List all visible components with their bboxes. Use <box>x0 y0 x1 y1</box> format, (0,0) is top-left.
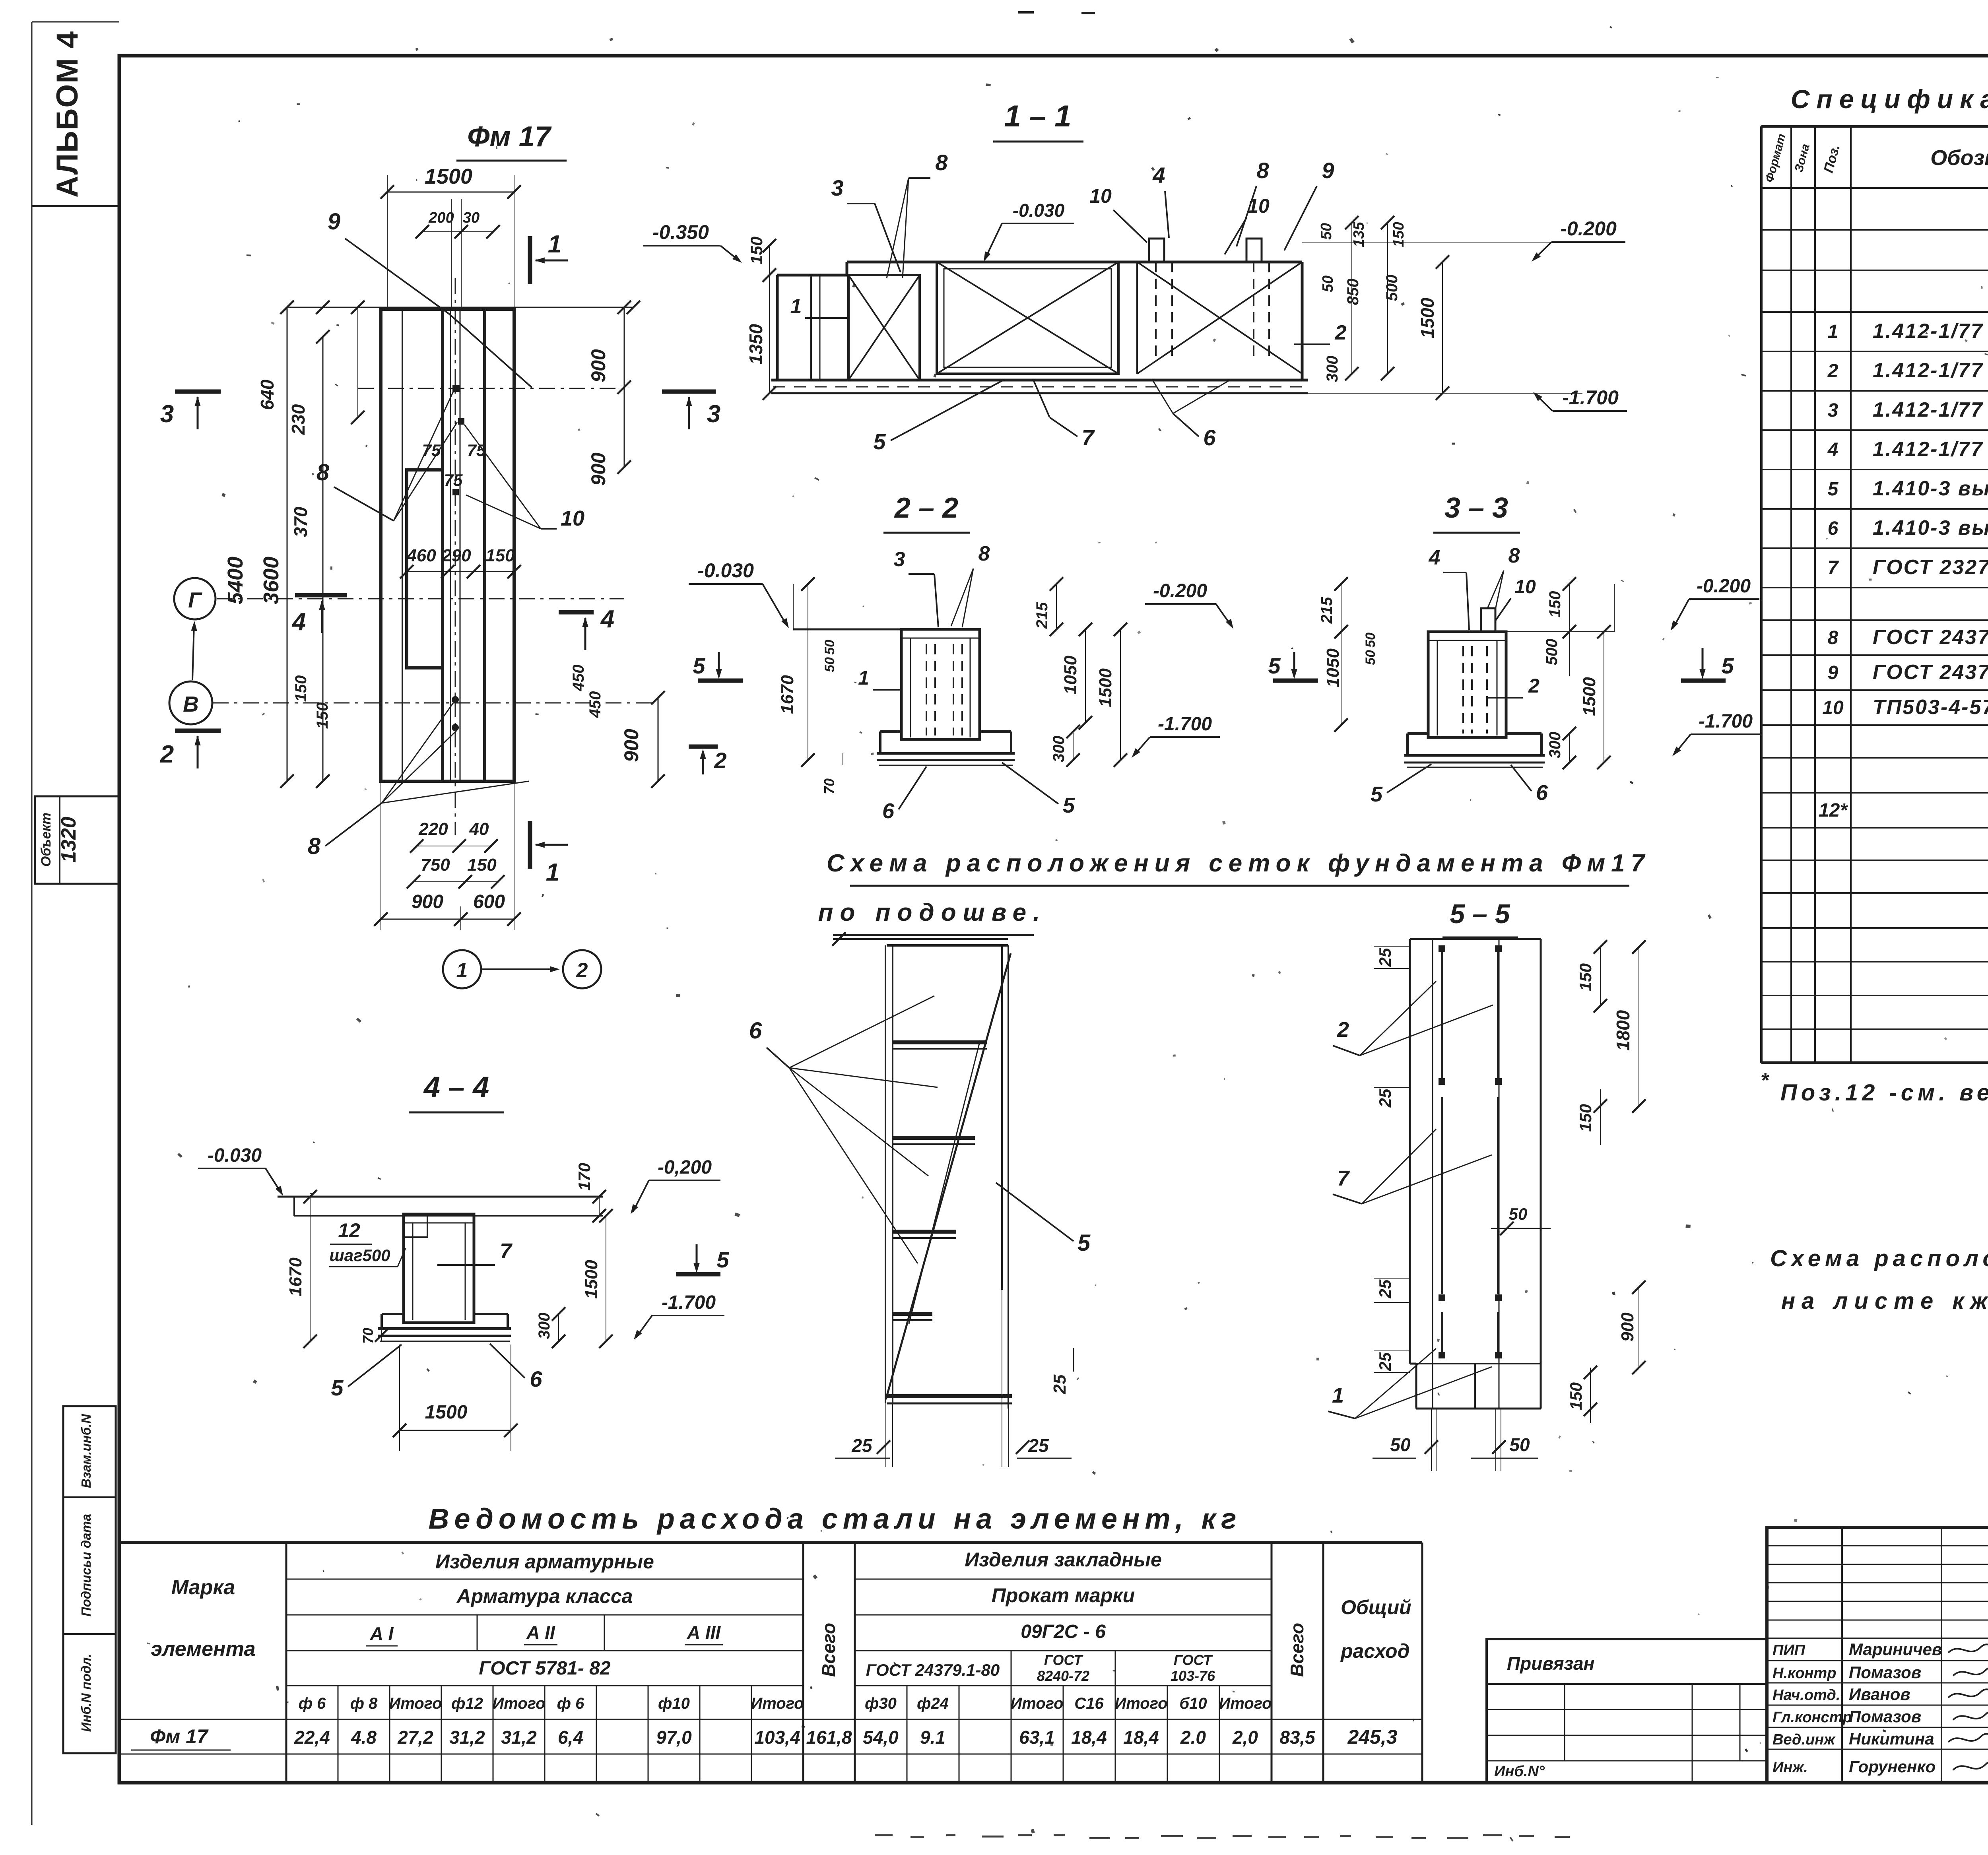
svg-text:12: 12 <box>338 1219 360 1242</box>
svg-text:50: 50 <box>1363 650 1378 665</box>
svg-text:ф24: ф24 <box>917 1695 949 1712</box>
svg-text:Обозначение: Обозначение <box>1930 146 1988 170</box>
axis circle G <box>174 578 215 619</box>
svg-text:450: 450 <box>570 665 587 692</box>
svg-text:500: 500 <box>1543 639 1561 666</box>
svg-text:Итого: Итого <box>1114 1695 1167 1712</box>
margin label box <box>63 1406 116 1753</box>
plan right dim 900 c <box>658 698 659 781</box>
s22 mark 5 <box>698 679 743 683</box>
svg-text:Привязан: Привязан <box>1507 1653 1594 1674</box>
svg-text:7: 7 <box>1337 1166 1350 1190</box>
axis circle 1 <box>443 950 481 988</box>
plan top dimension line <box>287 307 633 308</box>
s55 inner line left <box>1432 939 1433 1409</box>
svg-text:161,8: 161,8 <box>806 1727 852 1748</box>
s55 outline <box>1410 938 1541 940</box>
plan inner pair <box>450 309 451 781</box>
svg-text:1 – 1: 1 – 1 <box>1004 99 1071 133</box>
svg-text:220: 220 <box>418 819 448 839</box>
privyazan grid <box>1487 1683 1767 1685</box>
svg-text:1320: 1320 <box>57 817 80 863</box>
s11 crossed box mid <box>937 262 1118 374</box>
svg-text:300: 300 <box>1324 356 1341 382</box>
s11 crossed box left <box>848 275 920 380</box>
s33 mark 5 left <box>1273 679 1318 683</box>
s11 left edge <box>776 275 779 380</box>
svg-text:Помазов: Помазов <box>1849 1663 1921 1682</box>
svg-text:6: 6 <box>530 1366 542 1391</box>
s33 inner mesh <box>1437 640 1438 735</box>
svg-text:290: 290 <box>441 546 471 565</box>
plan left dim 5400 line <box>287 307 288 781</box>
svg-text:Марка: Марка <box>171 1576 235 1599</box>
svg-text:10: 10 <box>1822 697 1844 718</box>
svg-text:-0.200: -0.200 <box>1153 580 1207 602</box>
svg-text:Н.контр: Н.контр <box>1773 1665 1836 1682</box>
svg-text:1.412-1/77 вып.3: 1.412-1/77 вып.3 <box>1873 398 1988 421</box>
s44 slab <box>378 1327 511 1330</box>
svg-text:2: 2 <box>714 748 726 773</box>
svg-text:Иванов: Иванов <box>1849 1685 1910 1704</box>
s55 dim ext left <box>1374 946 1410 947</box>
svg-text:230: 230 <box>288 404 309 435</box>
section mark 3 right <box>662 390 716 394</box>
svg-text:50: 50 <box>1509 1205 1528 1223</box>
s11 bolt dashed pair b <box>1253 262 1254 360</box>
svg-text:ГОСТ 24379.1-80: ГОСТ 24379.1-80 <box>1873 626 1988 649</box>
svg-text:50: 50 <box>1320 276 1336 292</box>
svg-text:150: 150 <box>292 675 310 702</box>
s44 pedestal notch <box>404 1214 427 1237</box>
svg-text:50: 50 <box>1318 223 1335 240</box>
svg-text:4: 4 <box>600 605 614 633</box>
svg-text:70: 70 <box>821 778 837 794</box>
svg-text:150: 150 <box>1576 963 1595 991</box>
svg-text:25: 25 <box>1028 1435 1049 1456</box>
plan right dim 900 a <box>624 307 625 467</box>
plan bottom dim 900/600 <box>381 919 514 920</box>
privyazan box <box>1487 1639 1767 1783</box>
svg-text:Горуненко: Горуненко <box>1849 1757 1936 1776</box>
svg-text:150: 150 <box>485 546 515 565</box>
svg-text:18,4: 18,4 <box>1071 1727 1107 1748</box>
plan inner wall left <box>402 309 403 781</box>
svg-text:ГОСТ 24379.1-80: ГОСТ 24379.1-80 <box>866 1661 1000 1679</box>
s11 column lines <box>810 275 812 380</box>
svg-text:Подписьи дата: Подписьи дата <box>79 1514 93 1616</box>
svg-text:Арматура класса: Арматура класса <box>456 1585 633 1607</box>
svg-text:150: 150 <box>1390 222 1407 247</box>
svg-text:1500: 1500 <box>425 165 472 188</box>
svg-text:Изделия арматурные: Изделия арматурные <box>435 1550 654 1573</box>
s55 bar dots left <box>1439 945 1445 952</box>
svg-text:-1.700: -1.700 <box>662 1292 716 1313</box>
svg-text:Схема расположения сеток фу: Схема расположения сеток фундамента Фм17 <box>827 850 1650 877</box>
svg-text:9.1: 9.1 <box>920 1727 945 1748</box>
s22 mark 2 <box>689 745 718 749</box>
s33 top line <box>1428 631 1614 632</box>
svg-text:215: 215 <box>1033 602 1051 629</box>
svg-text:8: 8 <box>308 833 321 859</box>
s22 top ext <box>793 584 794 629</box>
svg-text:103,4: 103,4 <box>754 1727 800 1748</box>
ladder bottom rung <box>887 1394 1012 1398</box>
ladder rung 1 <box>893 1040 987 1044</box>
svg-text:1: 1 <box>858 667 869 689</box>
svg-text:ф 6: ф 6 <box>557 1695 585 1712</box>
svg-text:4: 4 <box>1429 546 1441 569</box>
svg-text:-0.350: -0.350 <box>652 221 709 243</box>
svg-text:Итого: Итого <box>1219 1695 1272 1712</box>
s22 slab <box>877 752 1015 755</box>
ladder rung 4 <box>893 1312 932 1316</box>
s11 left step <box>777 274 847 277</box>
titleblock signatures <box>1948 1644 1988 1654</box>
s22 pedestal <box>901 629 980 739</box>
svg-text:12*: 12* <box>1819 800 1848 821</box>
svg-text:900: 900 <box>620 729 643 762</box>
svg-text:2: 2 <box>576 959 588 982</box>
svg-text:6: 6 <box>1536 781 1548 805</box>
svg-text:8: 8 <box>316 460 330 485</box>
svg-text:7: 7 <box>500 1239 513 1263</box>
svg-text:Нач.отд.: Нач.отд. <box>1773 1687 1840 1704</box>
svg-text:1670: 1670 <box>778 675 797 714</box>
svg-text:ф30: ф30 <box>865 1695 897 1712</box>
svg-text:1.412-1/77 вып.3: 1.412-1/77 вып.3 <box>1873 438 1988 461</box>
s22 inner mesh <box>910 638 911 737</box>
svg-text:8: 8 <box>1256 158 1269 183</box>
svg-text:ГОСТ: ГОСТ <box>1174 1652 1213 1668</box>
svg-text:75: 75 <box>422 441 441 460</box>
s11 crossed box right <box>1137 262 1302 374</box>
ladder left rail <box>885 945 886 1403</box>
svg-text:А II: А II <box>526 1622 555 1643</box>
s55 bars right <box>1497 950 1499 1079</box>
section mark 1 bottom <box>528 821 532 869</box>
svg-text:640: 640 <box>257 379 278 410</box>
plan left dim 3600 line <box>322 337 324 781</box>
svg-text:Фм 17: Фм 17 <box>150 1725 209 1748</box>
svg-text:1.412-1/77 вып.3: 1.412-1/77 вып.3 <box>1873 320 1988 343</box>
svg-text:Инж.: Инж. <box>1773 1759 1808 1776</box>
svg-text:8: 8 <box>1508 544 1520 567</box>
svg-text:9: 9 <box>328 209 340 235</box>
axis arrow 1-2 <box>482 968 556 970</box>
svg-text:-0.030: -0.030 <box>208 1145 262 1166</box>
svg-text:150: 150 <box>1546 591 1564 618</box>
plan bottom dim 220/40 <box>417 846 491 846</box>
ladder right rail <box>1001 945 1003 1290</box>
svg-text:150: 150 <box>1567 1382 1585 1410</box>
svg-text:Всего: Всего <box>818 1623 839 1677</box>
svg-text:3: 3 <box>707 400 720 428</box>
svg-text:900: 900 <box>587 349 610 382</box>
svg-text:25: 25 <box>1376 1352 1394 1371</box>
svg-text:2.0: 2.0 <box>1180 1727 1206 1748</box>
svg-text:4: 4 <box>1152 163 1165 188</box>
svg-text:2 – 2: 2 – 2 <box>894 492 958 524</box>
svg-text:9: 9 <box>1322 158 1334 183</box>
svg-text:25: 25 <box>1050 1374 1070 1394</box>
svg-text:370: 370 <box>290 506 311 537</box>
svg-text:750: 750 <box>421 855 450 875</box>
ladder rung 3 <box>893 1230 956 1234</box>
svg-text:500: 500 <box>1383 275 1401 301</box>
svg-text:10: 10 <box>561 506 584 530</box>
svg-text:450: 450 <box>586 691 604 718</box>
svg-text:5: 5 <box>716 1247 729 1272</box>
svg-text:7: 7 <box>1828 557 1839 578</box>
plan centerline G <box>217 598 624 600</box>
svg-text:4: 4 <box>1827 439 1839 460</box>
svg-text:150: 150 <box>467 855 497 875</box>
svg-text:1500: 1500 <box>425 1402 468 1423</box>
svg-text:ф12: ф12 <box>451 1695 483 1712</box>
s33 bolt cap <box>1481 608 1495 632</box>
svg-text:ф 6: ф 6 <box>299 1695 326 1712</box>
svg-text:ф10: ф10 <box>658 1695 690 1712</box>
svg-text:63,1: 63,1 <box>1019 1727 1055 1748</box>
svg-text:1.410-3 вып.1: 1.410-3 вып.1 <box>1873 516 1988 539</box>
svg-text:300: 300 <box>536 1313 553 1339</box>
svg-text:-0.200: -0.200 <box>1560 217 1617 240</box>
svg-text:1.410-3 вып.1: 1.410-3 вып.1 <box>1873 477 1988 500</box>
section mark 4 left <box>295 593 347 598</box>
s44 inner mesh <box>412 1223 414 1320</box>
ladder rung 2 <box>893 1136 975 1140</box>
svg-text:Изделия закладные: Изделия закладные <box>965 1548 1162 1571</box>
svg-text:4: 4 <box>291 608 306 636</box>
vedomost grid <box>120 1541 1422 1544</box>
scan specks <box>1678 110 1681 112</box>
s33 pedestal <box>1428 632 1506 737</box>
svg-text:3600: 3600 <box>259 557 283 604</box>
svg-text:-0.030: -0.030 <box>1013 200 1065 221</box>
svg-text:50: 50 <box>822 640 837 655</box>
plan outline <box>381 309 514 781</box>
svg-text:Взам.инб.N: Взам.инб.N <box>79 1414 93 1488</box>
svg-text:900: 900 <box>412 891 443 912</box>
svg-text:25: 25 <box>1376 1089 1394 1108</box>
svg-text:5: 5 <box>1721 653 1734 678</box>
object box <box>35 796 119 884</box>
svg-text:1500: 1500 <box>1096 668 1115 707</box>
svg-text:Итого: Итого <box>1010 1695 1063 1712</box>
svg-text:Итого: Итого <box>751 1695 804 1712</box>
svg-text:А III: А III <box>687 1622 721 1643</box>
section mark 2 left <box>175 729 221 733</box>
svg-text:1500: 1500 <box>1417 297 1438 338</box>
s55 bottom ext <box>1431 1409 1432 1471</box>
svg-text:2: 2 <box>1337 1018 1349 1042</box>
svg-text:900: 900 <box>587 452 610 486</box>
svg-text:Гл.констр: Гл.констр <box>1773 1709 1852 1726</box>
svg-text:2: 2 <box>1335 321 1347 344</box>
svg-text:1050: 1050 <box>1323 648 1343 687</box>
svg-text:50: 50 <box>822 657 837 672</box>
svg-text:5: 5 <box>693 653 705 678</box>
svg-text:Мариничев: Мариничев <box>1849 1640 1942 1659</box>
s11 bottom slab <box>771 379 1308 382</box>
svg-text:7: 7 <box>1081 425 1095 450</box>
svg-text:шаг500: шаг500 <box>329 1246 390 1265</box>
plan dim 1500 top <box>387 192 514 193</box>
plan inner wall right <box>483 309 486 781</box>
svg-text:6: 6 <box>882 799 895 823</box>
plan dim 200/30 <box>422 231 493 232</box>
svg-text:8: 8 <box>1828 627 1839 648</box>
s33 slab <box>1404 754 1545 757</box>
svg-text:1: 1 <box>790 295 802 318</box>
svg-text:б10: б10 <box>1179 1695 1207 1712</box>
axis arrow V-G <box>192 625 194 680</box>
svg-text:Помазов: Помазов <box>1849 1707 1921 1726</box>
svg-text:25: 25 <box>851 1435 873 1456</box>
svg-text:83,5: 83,5 <box>1279 1727 1316 1748</box>
svg-text:18,4: 18,4 <box>1123 1727 1159 1748</box>
s44 pedestal <box>404 1214 474 1323</box>
svg-text:1: 1 <box>548 231 561 258</box>
svg-text:Инб.N подл.: Инб.N подл. <box>79 1654 93 1732</box>
svg-text:С16: С16 <box>1074 1695 1104 1712</box>
plan opening <box>407 470 443 668</box>
svg-text:54,0: 54,0 <box>863 1727 899 1748</box>
svg-text:-0.030: -0.030 <box>697 559 754 582</box>
svg-text:Поз.12 -см. ведомость деталей: Поз.12 -см. ведомость деталей на листе К… <box>1780 1080 1988 1106</box>
plan centerline V <box>213 702 656 704</box>
svg-text:300: 300 <box>1546 732 1564 759</box>
svg-text:1350: 1350 <box>745 324 766 365</box>
svg-text:3 – 3: 3 – 3 <box>1444 492 1508 524</box>
s44 top line <box>278 1196 603 1198</box>
s22 top line <box>793 629 980 631</box>
svg-text:5: 5 <box>331 1375 344 1400</box>
svg-text:ГОСТ 24379.1-80: ГОСТ 24379.1-80 <box>1873 661 1988 684</box>
svg-text:25: 25 <box>1376 948 1394 967</box>
svg-text:5: 5 <box>1371 782 1383 806</box>
svg-text:3: 3 <box>1828 400 1839 421</box>
svg-text:*: * <box>1761 1069 1770 1092</box>
svg-text:ГОСТ 23279-85: ГОСТ 23279-85 <box>1873 556 1988 579</box>
svg-text:1050: 1050 <box>1061 656 1080 695</box>
svg-text:ГОСТ 5781- 82: ГОСТ 5781- 82 <box>479 1658 610 1679</box>
svg-text:200: 200 <box>428 210 454 226</box>
svg-text:1670: 1670 <box>286 1257 305 1296</box>
ladder bottom ext <box>885 1403 886 1467</box>
svg-text:460: 460 <box>406 546 436 565</box>
plan centerline vertical <box>455 278 456 835</box>
svg-text:8240-72: 8240-72 <box>1037 1668 1089 1684</box>
s33 footing <box>1408 732 1428 735</box>
svg-text:600: 600 <box>473 891 505 912</box>
svg-text:5: 5 <box>1063 794 1075 817</box>
axis circle 2 <box>563 950 601 988</box>
svg-text:09Г2С - 6: 09Г2С - 6 <box>1021 1621 1106 1642</box>
section mark 1 top <box>528 236 532 284</box>
svg-text:5400: 5400 <box>223 557 247 604</box>
svg-text:4 – 4: 4 – 4 <box>423 1071 489 1104</box>
svg-text:245,3: 245,3 <box>1347 1726 1397 1748</box>
svg-text:1500: 1500 <box>1580 677 1599 716</box>
svg-text:31,2: 31,2 <box>501 1727 537 1748</box>
svg-text:элемента: элемента <box>151 1638 255 1661</box>
section mark 4 right <box>559 610 594 615</box>
section mark 3 left <box>175 390 221 394</box>
svg-text:50: 50 <box>1509 1434 1530 1455</box>
svg-text:2: 2 <box>1827 361 1839 382</box>
svg-text:ТП503-4-57С.88 - КЖИ-06: ТП503-4-57С.88 - КЖИ-06 <box>1873 696 1988 719</box>
s55 inner line right <box>1499 939 1500 1409</box>
svg-text:по подошве.: по подошве. <box>818 899 1047 926</box>
svg-text:АЛЬБОМ 4: АЛЬБОМ 4 <box>50 31 84 198</box>
svg-text:3: 3 <box>160 400 174 428</box>
svg-text:6,4: 6,4 <box>558 1727 583 1748</box>
titleblock outer <box>1767 1527 1988 1783</box>
svg-text:900: 900 <box>1618 1312 1637 1342</box>
svg-text:10: 10 <box>1514 576 1536 598</box>
svg-text:-0,200: -0,200 <box>658 1157 712 1178</box>
svg-text:-1.700: -1.700 <box>1158 714 1212 735</box>
ladder diagonal second <box>909 1040 980 1324</box>
svg-text:300: 300 <box>1050 736 1068 763</box>
svg-text:3: 3 <box>831 175 843 200</box>
svg-text:850: 850 <box>1344 279 1362 305</box>
spec table grid <box>1761 125 1988 128</box>
svg-text:150: 150 <box>314 702 331 729</box>
ladder diagonal main <box>886 953 1011 1399</box>
s11 bolt dashed pair a <box>1155 262 1157 360</box>
svg-text:Всего: Всего <box>1287 1623 1307 1677</box>
svg-text:Инб.N°: Инб.N° <box>1494 1763 1545 1780</box>
svg-text:27,2: 27,2 <box>397 1727 433 1748</box>
s11 dim lines right <box>1351 223 1352 374</box>
svg-text:Общий: Общий <box>1341 1596 1411 1618</box>
svg-text:22,4: 22,4 <box>294 1727 330 1748</box>
svg-text:1.412-1/77 вып.3: 1.412-1/77 вып.3 <box>1873 359 1988 382</box>
svg-text:1800: 1800 <box>1613 1010 1633 1051</box>
s11 right edge <box>1301 262 1304 380</box>
svg-text:3: 3 <box>894 548 905 571</box>
axis circle V <box>169 681 212 724</box>
svg-text:ГОСТ: ГОСТ <box>1044 1652 1083 1668</box>
s55 bottom block <box>1416 1363 1541 1364</box>
svg-text:Ведомость расхода стали: Ведомость расхода стали на элемент, кг <box>428 1503 1241 1535</box>
ladder top lines <box>833 938 1008 940</box>
svg-text:5 – 5: 5 – 5 <box>1450 899 1510 929</box>
svg-text:расход: расход <box>1340 1640 1410 1662</box>
svg-text:8: 8 <box>935 150 948 175</box>
svg-text:5: 5 <box>873 429 886 454</box>
svg-text:5: 5 <box>1828 479 1839 500</box>
svg-text:4.8: 4.8 <box>351 1727 377 1748</box>
svg-text:10: 10 <box>1089 185 1112 207</box>
s33 top ext <box>1614 584 1615 632</box>
svg-text:70: 70 <box>360 1328 376 1344</box>
s22 bolts dashed <box>926 644 927 735</box>
svg-text:В: В <box>183 692 199 716</box>
svg-text:на листе кж-3.: на листе кж-3. <box>1781 1288 1988 1314</box>
svg-text:Г: Г <box>188 588 202 612</box>
s33 mark 5 right <box>1681 679 1726 683</box>
s22 footing <box>880 730 901 733</box>
svg-text:50: 50 <box>1363 633 1378 648</box>
svg-text:25: 25 <box>1376 1279 1394 1298</box>
s44 second line <box>294 1215 603 1217</box>
svg-text:6: 6 <box>749 1018 762 1044</box>
svg-text:Спецификация фундамента Фм 1: Спецификация фундамента Фм 17 <box>1791 84 1988 114</box>
